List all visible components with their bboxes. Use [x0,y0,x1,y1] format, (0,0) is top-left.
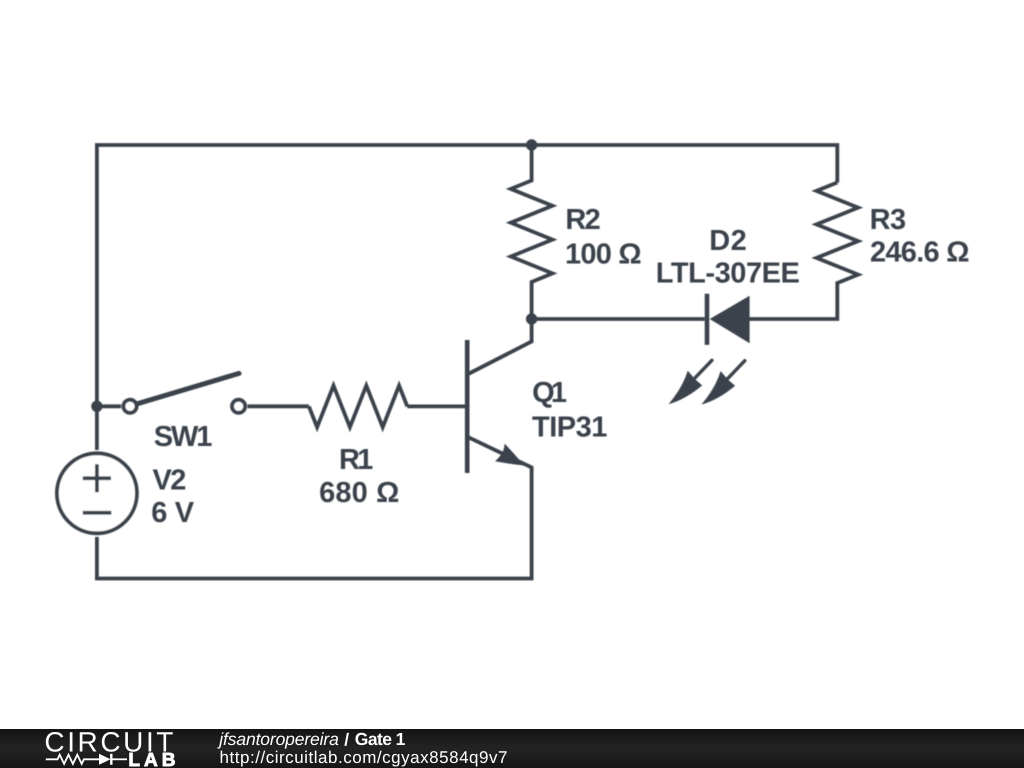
svg-text:TIP31: TIP31 [532,411,607,443]
svg-text:6 V: 6 V [151,497,194,529]
svg-text:Q1: Q1 [532,377,567,409]
svg-text:LAB: LAB [128,750,178,768]
svg-text:http://circuitlab.com/cgyax858: http://circuitlab.com/cgyax8584q9v7 [220,748,508,767]
svg-text:SW1: SW1 [154,421,213,453]
svg-text:jfsantoropereira: jfsantoropereira [217,729,339,749]
svg-text:246.6 Ω: 246.6 Ω [870,237,970,269]
svg-text:100 Ω: 100 Ω [565,239,642,271]
svg-text:V2: V2 [153,465,187,497]
svg-text:/: / [344,729,349,749]
svg-text:680 Ω: 680 Ω [319,477,399,509]
svg-text:R1: R1 [339,444,373,476]
svg-text:LTL-307EE: LTL-307EE [656,258,800,290]
svg-text:D2: D2 [709,225,747,257]
svg-text:Gate 1: Gate 1 [355,729,406,749]
svg-text:R3: R3 [870,204,907,236]
svg-text:R2: R2 [565,204,600,236]
